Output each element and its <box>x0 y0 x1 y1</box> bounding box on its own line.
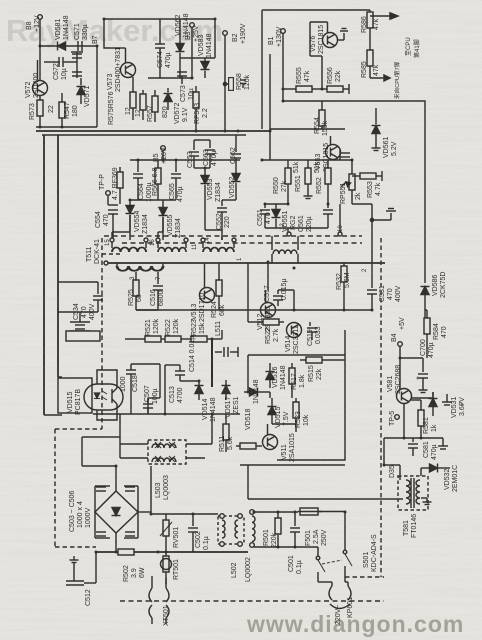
winding W2 <box>156 238 188 252</box>
diode VD562 <box>175 13 190 78</box>
inductor L502 <box>218 514 244 578</box>
wire <box>207 338 222 340</box>
capacitor C577 <box>71 52 83 58</box>
wire <box>248 498 403 500</box>
wire <box>269 54 271 160</box>
wire <box>271 254 273 263</box>
resistor R552 <box>314 160 331 204</box>
wire <box>384 464 400 466</box>
capacitor C518 <box>126 364 139 414</box>
wire <box>131 363 160 365</box>
wire <box>58 281 98 283</box>
transistor V514 <box>285 323 302 355</box>
resistor RF369 <box>112 167 123 204</box>
terminal B2 <box>223 23 247 44</box>
capacitor C574 <box>155 19 172 78</box>
capacitor C517 <box>264 278 288 306</box>
resistor R525 <box>128 272 143 310</box>
resistor R514 <box>236 443 262 449</box>
wire <box>267 263 269 290</box>
scan noise overlay <box>0 0 1 1</box>
capacitor C581 <box>408 438 438 460</box>
dashed wire horizontal y429 <box>55 428 102 430</box>
wire <box>264 391 270 393</box>
label to CPU pin41 <box>405 37 421 58</box>
diode VD516 <box>266 363 288 390</box>
capacitor C532b <box>70 322 90 331</box>
test point TP-5 <box>389 411 399 426</box>
capacitor C551 <box>257 204 272 228</box>
capacitor C512 <box>66 556 96 606</box>
transistor V581 <box>387 365 412 404</box>
transistor V573 <box>107 47 136 92</box>
transistor V513 <box>191 263 215 322</box>
capacitor C507 <box>143 385 159 414</box>
ground <box>421 438 448 449</box>
zener VD561 <box>372 108 399 158</box>
zener VD515z <box>268 398 291 428</box>
wire <box>283 100 322 102</box>
capacitor C516 <box>150 272 165 310</box>
resistor R520 <box>293 398 310 428</box>
wire <box>79 312 81 322</box>
winding W6 <box>104 261 163 271</box>
wire <box>130 159 240 161</box>
wire <box>399 346 401 390</box>
wire <box>115 533 117 552</box>
wire <box>191 27 193 60</box>
thermistor RT501 <box>161 552 181 584</box>
capacitor C519 <box>307 322 322 346</box>
resistor R521 <box>145 318 161 342</box>
zener VD572 <box>164 88 190 124</box>
wire <box>39 19 41 46</box>
capacitor C531 <box>367 282 402 310</box>
pin circle 12 <box>287 232 291 236</box>
wire <box>151 576 153 584</box>
fuse F501 <box>298 508 345 546</box>
wire <box>294 309 344 311</box>
wire <box>181 338 192 340</box>
capacitor C534 <box>73 282 103 320</box>
diode VD532 <box>421 464 459 493</box>
wire <box>310 55 322 57</box>
resistor R524 <box>211 263 226 318</box>
transformer T581 <box>398 476 428 538</box>
diode VD514 <box>195 380 218 422</box>
resistor R586 <box>361 10 380 50</box>
small box <box>66 331 100 341</box>
wire <box>295 424 297 432</box>
wire thick drop <box>211 339 213 387</box>
diode VD586 <box>421 272 448 330</box>
capacitor C562b <box>340 150 350 160</box>
wire <box>148 77 192 79</box>
resistor R502 <box>118 549 146 582</box>
wire <box>39 95 41 100</box>
transistor V511 <box>263 424 297 462</box>
dashed wire vertical x55 <box>54 429 56 547</box>
resistor R522 <box>165 318 181 342</box>
label T511 DCK-41 <box>86 239 101 264</box>
wire <box>265 227 328 229</box>
diode VD517 <box>222 380 241 418</box>
wire to CPU41 arrow <box>370 13 398 19</box>
wire left bus inner <box>57 135 59 377</box>
resistor R581 <box>418 404 438 438</box>
dashed wire y601 <box>120 600 384 602</box>
dashed wire vertical x102 <box>101 238 103 429</box>
wire <box>254 511 298 513</box>
wire <box>164 365 166 414</box>
wire <box>129 215 131 232</box>
plug KP601 <box>329 582 354 625</box>
winding W3 <box>201 238 236 252</box>
dashed wire x381 <box>380 238 382 577</box>
wire <box>162 150 164 160</box>
resistor R566 <box>152 160 161 200</box>
capacitor C501 <box>288 512 303 574</box>
wire <box>115 466 117 491</box>
capacitor C562 <box>230 140 241 170</box>
wire <box>40 45 97 47</box>
resistor R529 <box>258 319 284 344</box>
wire opto bottom <box>97 404 117 420</box>
wire <box>261 10 263 129</box>
wire <box>130 199 176 201</box>
wire <box>44 414 62 416</box>
diode VD551 <box>272 204 298 232</box>
capacitor C553 <box>187 140 199 168</box>
wire <box>247 465 249 499</box>
resistor R550 <box>273 160 291 204</box>
wire <box>136 309 158 311</box>
wire <box>205 229 222 231</box>
capacitor Cb2 <box>95 532 110 538</box>
terminal B3 <box>185 23 200 42</box>
wire row y514 <box>151 513 192 515</box>
wire box corner right <box>322 101 425 283</box>
wire <box>58 376 62 378</box>
wire <box>318 581 332 583</box>
wire <box>297 254 299 263</box>
wire long rail y135 <box>42 134 246 136</box>
capacitor C700 <box>415 339 435 392</box>
wire <box>270 128 345 130</box>
wire top rail y19 <box>104 18 215 20</box>
diode VD583 <box>198 33 213 78</box>
resistor R553 <box>352 171 382 198</box>
wire from CPU7 <box>370 75 390 81</box>
transistor V576 <box>310 22 338 56</box>
test point TP-P <box>99 174 110 205</box>
wire <box>94 486 96 538</box>
inductor L503 <box>148 440 186 500</box>
wire <box>120 443 148 445</box>
transistor V553 <box>315 136 341 172</box>
connector XT501 <box>149 584 170 626</box>
pin circle 10 <box>338 232 342 236</box>
wire <box>161 338 166 340</box>
wire <box>180 57 215 59</box>
wire <box>247 263 249 322</box>
capacitor C513 <box>169 365 185 403</box>
wire <box>44 61 60 63</box>
resistor R523 <box>191 319 207 342</box>
wire y355 <box>248 354 345 356</box>
resistor R557 <box>147 90 169 122</box>
wire opto top <box>97 370 117 388</box>
wire <box>194 167 210 169</box>
wire row y339 <box>125 338 146 340</box>
wire long rail y131 <box>36 130 270 132</box>
resistor R573 <box>29 100 55 120</box>
dashed wire y547 <box>55 546 96 548</box>
wire <box>104 19 110 48</box>
dashed stub <box>102 253 122 255</box>
wire <box>411 397 433 399</box>
capacitor C561 <box>298 204 333 232</box>
capacitor C559 <box>240 80 246 88</box>
resistor R558 <box>223 73 251 90</box>
dashed core line upper <box>104 235 362 237</box>
resistor R551 <box>293 160 313 199</box>
capacitor C578 <box>72 72 82 76</box>
capacitor Cb4 <box>124 532 138 538</box>
resistor RF563 <box>193 86 209 131</box>
wire <box>265 203 288 205</box>
wire secondary return y263 <box>104 262 385 264</box>
wire top rail y10 <box>262 9 370 11</box>
varistor RV501 <box>160 514 180 552</box>
resistor R511 <box>219 414 234 452</box>
inductor L500 <box>245 510 255 582</box>
capacitor C510 <box>215 347 238 357</box>
potentiometer RP551 <box>340 160 362 204</box>
capacitor C572 <box>53 57 68 80</box>
capacitor C573 <box>177 72 195 102</box>
resistor R575 <box>125 77 136 120</box>
switch S501 <box>316 534 378 582</box>
resistor R547 <box>59 93 79 119</box>
wire <box>63 61 77 63</box>
terminal B4 <box>391 317 406 346</box>
ground <box>421 498 432 505</box>
bridge rectifier C503-C506 <box>69 490 138 533</box>
capacitor C552 <box>216 200 231 240</box>
wire <box>420 468 422 476</box>
wire <box>403 403 405 438</box>
wire <box>240 464 345 466</box>
dashed wire y577 <box>345 576 384 578</box>
ground <box>433 392 452 405</box>
ground <box>337 29 348 41</box>
diode VD554 <box>126 200 150 240</box>
transistor V512 <box>257 290 276 332</box>
wire <box>247 355 249 392</box>
diode VD552 <box>229 170 241 200</box>
wire <box>39 116 41 127</box>
resistor R515 <box>300 357 345 382</box>
wire <box>95 552 97 583</box>
resistor R556 <box>327 67 349 94</box>
inductor L511 <box>215 321 222 339</box>
diode VD581 <box>55 15 70 50</box>
resistor R555 <box>296 67 328 92</box>
zener VD571 <box>77 78 92 107</box>
optocoupler VD515 <box>58 378 123 415</box>
capacitor Cb1 <box>95 486 110 491</box>
wire <box>411 399 421 401</box>
resistor R585 <box>361 50 380 78</box>
capacitor C564 <box>133 160 153 202</box>
wire <box>262 159 352 161</box>
capacitor C502 <box>188 514 210 552</box>
wire <box>400 357 423 359</box>
wire <box>39 46 41 81</box>
wire junction T <box>352 204 396 282</box>
capacitor C554 <box>95 205 118 240</box>
wire <box>150 466 152 514</box>
terminal B8 <box>26 15 42 32</box>
wire <box>254 546 318 548</box>
dashed core line lower <box>122 242 362 244</box>
winding W1 <box>110 238 148 252</box>
wire box <box>277 330 345 460</box>
resistor R576 <box>135 90 146 120</box>
resistor R554 <box>314 101 329 136</box>
wire <box>137 486 139 538</box>
wire bottom rail A <box>36 126 97 128</box>
transistor V572 <box>25 60 48 98</box>
resistor R584 <box>424 310 448 358</box>
wire <box>96 46 98 127</box>
wire <box>282 33 284 101</box>
wire row y552 <box>96 551 248 553</box>
wire <box>344 512 346 551</box>
resistor R501 <box>263 512 281 548</box>
wire <box>222 199 236 201</box>
wire <box>384 437 404 439</box>
wire vertical from C562 top <box>235 135 237 140</box>
wire <box>224 35 226 131</box>
resistor R517 <box>289 363 306 390</box>
wire <box>186 443 212 445</box>
wire <box>283 88 296 90</box>
diode VD513 <box>244 379 264 404</box>
capacitor C563 <box>203 140 218 168</box>
capacitor C571 <box>74 23 89 51</box>
wire <box>193 513 218 515</box>
capacitor C565 <box>169 160 184 202</box>
wire <box>136 309 294 311</box>
terminal B1 <box>268 26 285 47</box>
wire <box>425 309 427 311</box>
wire row y414 <box>93 413 240 415</box>
wire left bus outer <box>43 135 45 415</box>
capacitor Cb3 <box>124 486 138 491</box>
winding W4 primary <box>272 236 298 254</box>
wire <box>287 228 289 234</box>
diode VD555 <box>159 200 183 240</box>
terminal B5 <box>153 146 168 164</box>
resistor R532 <box>336 262 351 290</box>
diode VD553 <box>201 168 223 202</box>
zener VD531 <box>429 392 467 418</box>
